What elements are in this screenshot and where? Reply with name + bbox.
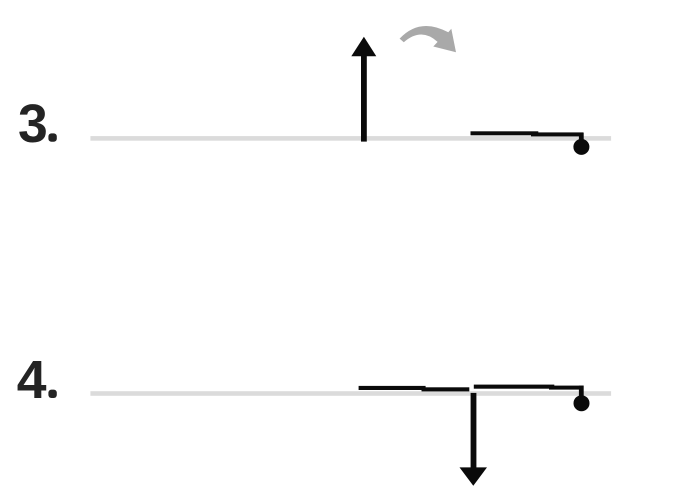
up arrow shaft — [361, 52, 367, 142]
baseline 4 — [90, 391, 611, 396]
curved flip arrow (gray) — [400, 26, 456, 52]
end dot 3 — [573, 139, 589, 155]
stroke bar 4 (right upper segment) — [474, 385, 555, 389]
up arrow head — [351, 37, 376, 57]
baseline 3 — [90, 136, 611, 141]
svg-text:3: 3 — [18, 95, 48, 154]
stroke bar 3 (upper segment) — [471, 131, 539, 135]
stroke bar 4 (left upper segment) — [359, 386, 426, 390]
stroke bar 3 (lower segment) — [531, 132, 584, 136]
item label period (4.) — [48, 390, 56, 398]
connector stub 3 — [579, 133, 584, 143]
item label period (3.) — [48, 133, 56, 141]
down arrow head — [460, 467, 488, 485]
connector stub 4 — [579, 386, 584, 397]
end dot 4 — [574, 395, 590, 411]
down arrow shaft — [471, 393, 477, 471]
stroke bar 4 (right lower segment) — [549, 386, 584, 390]
svg-text:4: 4 — [17, 351, 47, 410]
stroke bar 4 (left lower segment) — [422, 387, 470, 391]
